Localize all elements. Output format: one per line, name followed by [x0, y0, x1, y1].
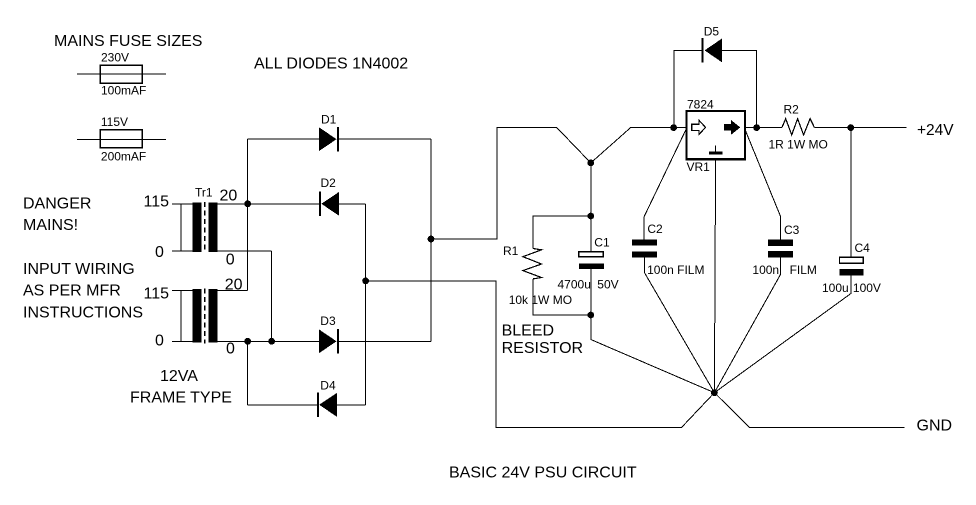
wire + rail to regulator — [431, 128, 687, 239]
transformer Tr1 primary winding 2 — [172, 289, 193, 291]
svg-text:12VA: 12VA — [160, 368, 198, 385]
svg-text:D2: D2 — [321, 176, 337, 190]
wire - rail — [366, 281, 715, 428]
wire C2 top — [644, 130, 686, 240]
svg-text:100mAF: 100mAF — [101, 84, 146, 98]
wire D3 anode — [248, 340, 319, 342]
svg-text:D3: D3 — [320, 314, 336, 328]
wire secondary parallel link (20 taps) — [247, 139, 249, 290]
capacitor C2 — [632, 239, 657, 245]
svg-text:Tr1: Tr1 — [195, 186, 213, 200]
svg-text:MAINS FUSE SIZES: MAINS FUSE SIZES — [54, 33, 202, 50]
fuse F2 body — [100, 130, 142, 148]
svg-text:AS PER MFR: AS PER MFR — [23, 283, 121, 300]
svg-text:D5: D5 — [704, 25, 720, 39]
svg-text:0: 0 — [226, 252, 235, 269]
wire D1 anode — [248, 138, 319, 140]
node regulator output — [753, 124, 760, 131]
svg-text:100n: 100n — [752, 263, 779, 277]
wire C1 to star ground — [591, 340, 715, 393]
fuse F1 body — [100, 65, 142, 83]
svg-text:0: 0 — [226, 341, 235, 358]
svg-text:BLEED: BLEED — [502, 323, 554, 340]
diode D2 — [319, 192, 321, 217]
wire D3 cathode — [339, 340, 431, 342]
transformer Tr1 secondary winding 2 — [209, 289, 218, 342]
regulator input arrow (open) — [692, 120, 706, 134]
svg-text:BASIC 24V PSU CIRCUIT: BASIC 24V PSU CIRCUIT — [449, 465, 637, 482]
node bridge - — [362, 278, 369, 285]
svg-text:C4: C4 — [855, 241, 871, 255]
wire D2 anode — [339, 203, 366, 205]
svg-text:0: 0 — [155, 333, 164, 350]
resistor R1 — [523, 249, 542, 279]
wire D5 right leg — [722, 50, 757, 127]
wire C1 top — [590, 163, 592, 252]
regulator output arrow (filled) — [724, 120, 740, 135]
wire D5 left leg — [674, 50, 702, 127]
svg-text:100n FILM: 100n FILM — [647, 263, 704, 277]
svg-text:MAINS!: MAINS! — [23, 217, 78, 234]
svg-text:FRAME TYPE: FRAME TYPE — [130, 390, 232, 407]
wire secondary parallel link (0 taps) — [271, 251, 273, 341]
node C1/R1 bottom tap — [587, 312, 594, 319]
svg-text:115: 115 — [144, 194, 170, 211]
wire fuse F1 lead — [77, 73, 166, 75]
svg-text:10k 1W MO: 10k 1W MO — [509, 293, 572, 307]
wire C2 bottom — [644, 258, 714, 393]
node R1/C1 top tap — [587, 213, 594, 220]
wire C3 top — [745, 130, 781, 240]
wire fuse F2 lead — [77, 138, 166, 140]
wire C3 bottom — [714, 258, 780, 393]
svg-text:200mAF: 200mAF — [101, 150, 146, 164]
diode D3 — [319, 329, 337, 353]
diode D5 — [701, 38, 703, 63]
wire C4 top — [850, 128, 852, 258]
wire star ground to GND terminal — [714, 393, 904, 428]
svg-text:+24V: +24V — [917, 122, 954, 139]
wire D1 cathode — [339, 138, 431, 140]
svg-text:20: 20 — [220, 188, 238, 205]
node C1 tap — [587, 160, 594, 167]
svg-text:4700u: 4700u — [558, 278, 591, 292]
wire D4 anode — [337, 404, 366, 406]
node C4 tap — [847, 124, 854, 131]
diode D4 — [317, 393, 319, 418]
svg-text:230V: 230V — [101, 51, 129, 65]
svg-text:1R 1W MO: 1R 1W MO — [769, 138, 828, 152]
node regulator input — [670, 124, 677, 131]
svg-text:GND: GND — [917, 418, 953, 435]
capacitor C1 — [579, 252, 604, 257]
wire R1 bottom — [533, 279, 591, 315]
svg-text:100V: 100V — [853, 281, 881, 295]
svg-text:0: 0 — [155, 244, 164, 261]
wire C4 bottom — [714, 276, 850, 393]
resistor R2 — [782, 119, 815, 135]
transformer Tr1 primary winding 1 — [172, 203, 193, 205]
svg-text:20: 20 — [225, 277, 243, 294]
capacitor C4 — [840, 257, 864, 263]
svg-text:C1: C1 — [594, 236, 610, 250]
svg-text:FILM: FILM — [790, 263, 817, 277]
svg-text:INSTRUCTIONS: INSTRUCTIONS — [23, 305, 143, 322]
wire +24V rail — [815, 127, 907, 129]
svg-text:C2: C2 — [647, 222, 663, 236]
svg-text:D1: D1 — [321, 113, 337, 127]
transformer Tr1 core (dashed) — [204, 202, 206, 253]
wire bridge - vertical — [365, 204, 367, 405]
svg-text:100u: 100u — [822, 281, 849, 295]
wire D4 cathode drop — [247, 341, 249, 405]
wire C1 bottom — [590, 269, 592, 340]
svg-text:INPUT WIRING: INPUT WIRING — [23, 261, 135, 278]
svg-text:7824: 7824 — [687, 98, 714, 112]
svg-text:R1: R1 — [503, 244, 519, 258]
regulator common symbol — [715, 145, 717, 151]
capacitor C3 — [768, 239, 793, 246]
svg-text:R2: R2 — [784, 103, 800, 117]
diode D1 — [319, 127, 337, 151]
svg-text:VR1: VR1 — [687, 160, 711, 174]
wire R1 top — [533, 216, 591, 249]
node star ground — [711, 389, 718, 396]
svg-text:115: 115 — [144, 286, 170, 303]
svg-text:115V: 115V — [101, 115, 128, 129]
wire D2 cathode — [248, 203, 320, 205]
node bridge + — [428, 236, 435, 243]
svg-text:50V: 50V — [597, 278, 618, 292]
wire regulator ground leg — [714, 159, 715, 393]
transformer Tr1 secondary winding 1 — [209, 203, 218, 253]
svg-text:C3: C3 — [784, 223, 800, 237]
svg-text:ALL DIODES 1N4002: ALL DIODES 1N4002 — [254, 56, 408, 73]
svg-text:DANGER: DANGER — [23, 196, 91, 213]
wire regulator output — [745, 127, 782, 129]
node 20-tap junction — [244, 200, 251, 207]
svg-text:D4: D4 — [320, 378, 336, 392]
node 0-tap junction a — [244, 338, 251, 345]
svg-text:RESISTOR: RESISTOR — [502, 340, 583, 357]
wire bridge + vertical — [430, 139, 432, 341]
node 0-tap junction b — [268, 338, 275, 345]
regulator U1 box — [687, 111, 746, 159]
